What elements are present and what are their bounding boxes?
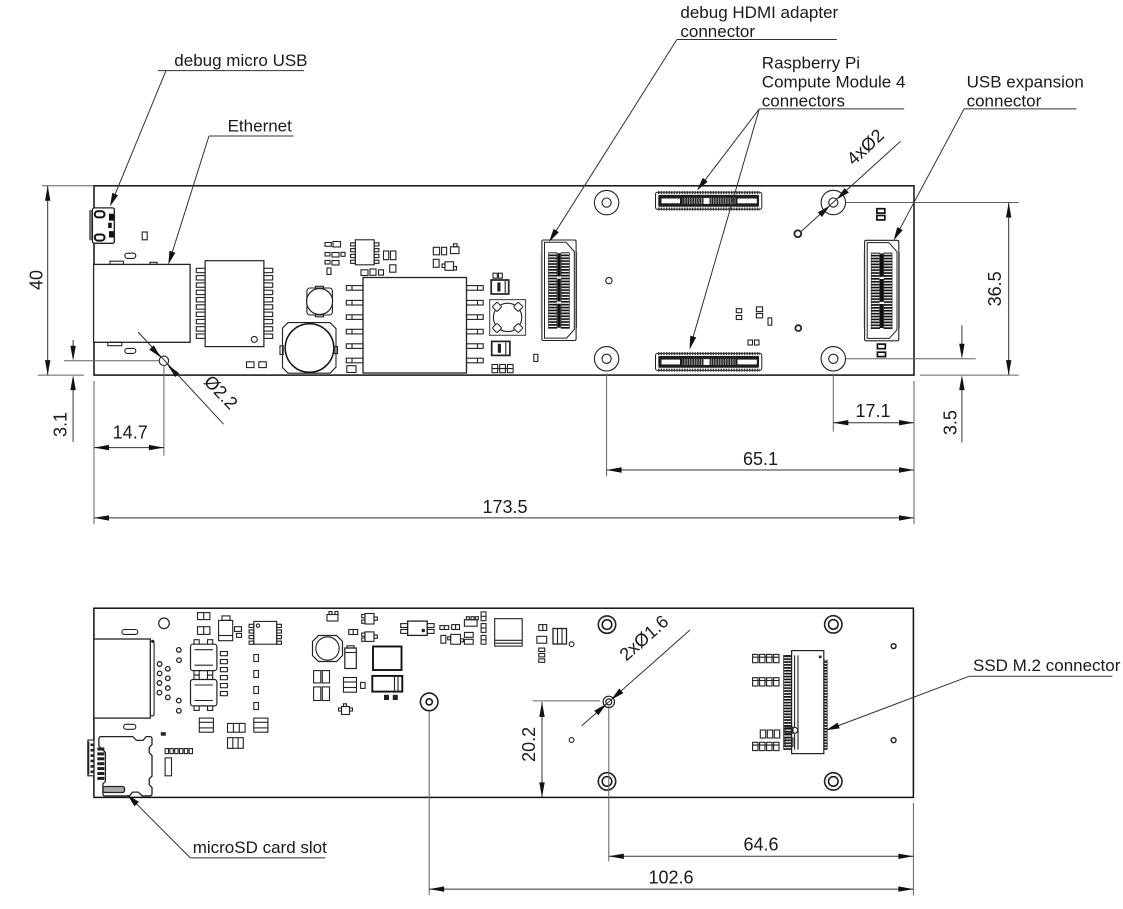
svg-text:connector: connector (967, 91, 1042, 110)
mounting hole top-left 4xO2 (594, 190, 618, 214)
ext line board bottom right (920, 374, 1019, 376)
ext line board bottom edge left (38, 374, 84, 376)
lower passives left-mid bottom view (199, 718, 268, 748)
dia callout O2.2 (138, 332, 241, 424)
label Raspberry Pi Compute Module 4 connectors (687, 53, 906, 350)
SOIC-8 U-top-left (351, 240, 379, 265)
label debug HDMI adapter connector (546, 3, 838, 244)
svg-text:Raspberry Pi: Raspberry Pi (762, 53, 860, 72)
ext line board right vertical (913, 381, 915, 524)
svg-text:3.5: 3.5 (941, 410, 961, 435)
fiducial holes right bottom view (891, 644, 896, 649)
hole 2xO1.6 right (603, 696, 614, 707)
svg-text:20.2: 20.2 (519, 727, 539, 762)
ext line board right vertical rear (912, 803, 914, 896)
svg-text:SSD M.2 connector: SSD M.2 connector (973, 656, 1121, 675)
vias row right of microSD (165, 749, 192, 754)
mounting hole rear top-right (825, 616, 842, 633)
fiducial hole near top-right (794, 230, 801, 237)
top-left passives bottom view (198, 613, 242, 641)
CM4 connector bottom (656, 352, 762, 371)
ethernet jack body (94, 253, 191, 353)
svg-text:14.7: 14.7 (113, 423, 148, 443)
dim 3.1 (51, 340, 76, 442)
ext line hole BR horizontal right (846, 358, 976, 360)
ext line board top edge left (42, 185, 94, 187)
passives right of SOIC-8 (361, 251, 396, 276)
svg-text:USB expansion: USB expansion (967, 72, 1084, 91)
card edge connector on left board edge (87, 740, 94, 776)
mounting hole rear top-left (598, 616, 615, 633)
dim 17.1 (833, 401, 914, 426)
ext line board left vertical (93, 381, 95, 524)
dim 64.6 (609, 834, 914, 859)
dim 40 (27, 186, 51, 375)
pads right of top-right hole (877, 209, 885, 220)
microSD card slot (97, 737, 152, 796)
hole 2xO1.6 left (with pad ring) (420, 693, 438, 711)
fiducial hole left-center (606, 277, 612, 283)
USB expansion connector J-usb (863, 240, 900, 340)
hole O2.2 rear (159, 618, 170, 629)
caps column right of big IC (491, 273, 513, 373)
bulk capacitor (280, 323, 338, 374)
svg-text:40: 40 (27, 270, 47, 290)
fiducial hole right-center (795, 325, 801, 331)
M.2 pads row1 (753, 654, 779, 662)
SOIC-8 bottom view (249, 621, 281, 644)
pad column right of optos (220, 652, 227, 696)
dim 65.1 (607, 449, 914, 473)
svg-text:17.1: 17.1 (855, 401, 890, 421)
dim 3.5 (941, 325, 965, 442)
svg-text:Ethernet: Ethernet (228, 117, 293, 136)
label Ethernet (165, 117, 293, 266)
center-right passives bottom view (401, 612, 486, 644)
resistor bold mid (372, 676, 402, 692)
ext line hole 1.6 far-left vertical (428, 711, 430, 895)
ext line hole BR vertical (832, 374, 834, 432)
SSD M.2 connector (784, 651, 828, 754)
passives cluster left of SOIC-8 (325, 242, 345, 275)
label microSD card slot (125, 792, 327, 858)
svg-text:65.1: 65.1 (743, 449, 778, 469)
optocoupler U-b2 (191, 675, 217, 710)
mounting hole rear bottom-left (598, 773, 615, 790)
caps pair column mid (314, 671, 366, 701)
label debug micro USB (107, 51, 307, 208)
shielded inductor (307, 286, 333, 317)
small pad right of micro USB (142, 232, 147, 240)
cap right of inductor (345, 646, 357, 669)
svg-text:36.5: 36.5 (985, 271, 1005, 306)
crystal oscillator (490, 300, 526, 336)
mounting hole top-right 4xO2 (821, 190, 845, 214)
tiny dark pads below (384, 695, 389, 700)
debug HDMI adapter connector J-hdmi (541, 240, 578, 341)
mounting hole rear bottom-right (825, 773, 842, 790)
fiducial lower mid bottom view (569, 738, 574, 743)
slot oval above ethernet rear (122, 630, 138, 635)
fiducial mid bottom view (569, 642, 574, 647)
ext line hole centerline left (64, 360, 159, 362)
M.2 pads row2 (753, 678, 779, 686)
ext line hole 1.6 left horizontal (533, 700, 601, 702)
dim 36.5 (985, 203, 1011, 376)
big cap center bottom view (495, 619, 523, 646)
ethernet jack rear (94, 639, 154, 718)
debug micro USB connector body (89, 208, 114, 243)
small pad above vias (161, 732, 166, 736)
label SSD M.2 connector (825, 656, 1121, 733)
dia callout 2xO1.6 (582, 611, 690, 725)
via cluster behind ethernet (157, 648, 181, 713)
svg-text:connector: connector (680, 22, 755, 41)
SOT23 lower mid (339, 704, 353, 715)
M.2 pads row3 (760, 730, 779, 738)
slot oval below ethernet rear (124, 724, 136, 729)
svg-text:Compute Module 4: Compute Module 4 (762, 72, 906, 91)
pads below USB expansion connector (877, 344, 885, 357)
label USB expansion connector (891, 72, 1084, 242)
hole O2.2 near ethernet (159, 356, 168, 365)
ext line hole BL vertical (606, 374, 608, 477)
vertical pad right of microSD (165, 758, 171, 776)
tiny pad column x254 (254, 655, 259, 710)
svg-text:debug micro USB: debug micro USB (174, 51, 307, 70)
M.2 pads row4 (753, 742, 779, 750)
svg-text:3.1: 3.1 (51, 412, 71, 437)
dia callout 4xO2 (800, 125, 901, 232)
tiny pad left of HDMI conn (534, 354, 538, 361)
power inductor (octagon) bottom view (313, 636, 343, 662)
board outline top view (94, 186, 914, 375)
IC square bold mid (373, 647, 402, 671)
pads below ethernet (247, 362, 255, 368)
dim 14.7 (94, 423, 164, 451)
svg-text:microSD card slot: microSD card slot (193, 838, 327, 857)
main IC (big square) (346, 278, 483, 374)
svg-text:connectors: connectors (762, 91, 845, 110)
pads right of big cap (537, 625, 567, 663)
svg-text:173.5: 173.5 (482, 497, 527, 517)
ext line hole vertical (163, 366, 165, 456)
optocoupler U-b1 (191, 640, 217, 675)
svg-text:64.6: 64.6 (743, 834, 778, 854)
passives mid (SOT23s) (433, 244, 459, 270)
svg-text:102.6: 102.6 (648, 868, 693, 888)
dim 102.6 (429, 868, 913, 892)
ext line hole 1.6 right vertical (608, 706, 610, 862)
dim 20.2 (519, 702, 545, 798)
small passives center of top board (736, 307, 771, 345)
ethernet PHY SOIC (196, 261, 272, 347)
mounting hole bottom-right 4xO2 (821, 347, 845, 371)
board outline bottom view (94, 608, 914, 797)
dim 173.5 (94, 497, 914, 521)
mounting hole bottom-left 4xO2 (594, 347, 618, 371)
mid components bottom view (327, 612, 377, 642)
CM4 connector top (656, 191, 762, 210)
ext line hole TR horizontal (846, 202, 1019, 204)
svg-text:debug HDMI adapter: debug HDMI adapter (680, 3, 838, 22)
